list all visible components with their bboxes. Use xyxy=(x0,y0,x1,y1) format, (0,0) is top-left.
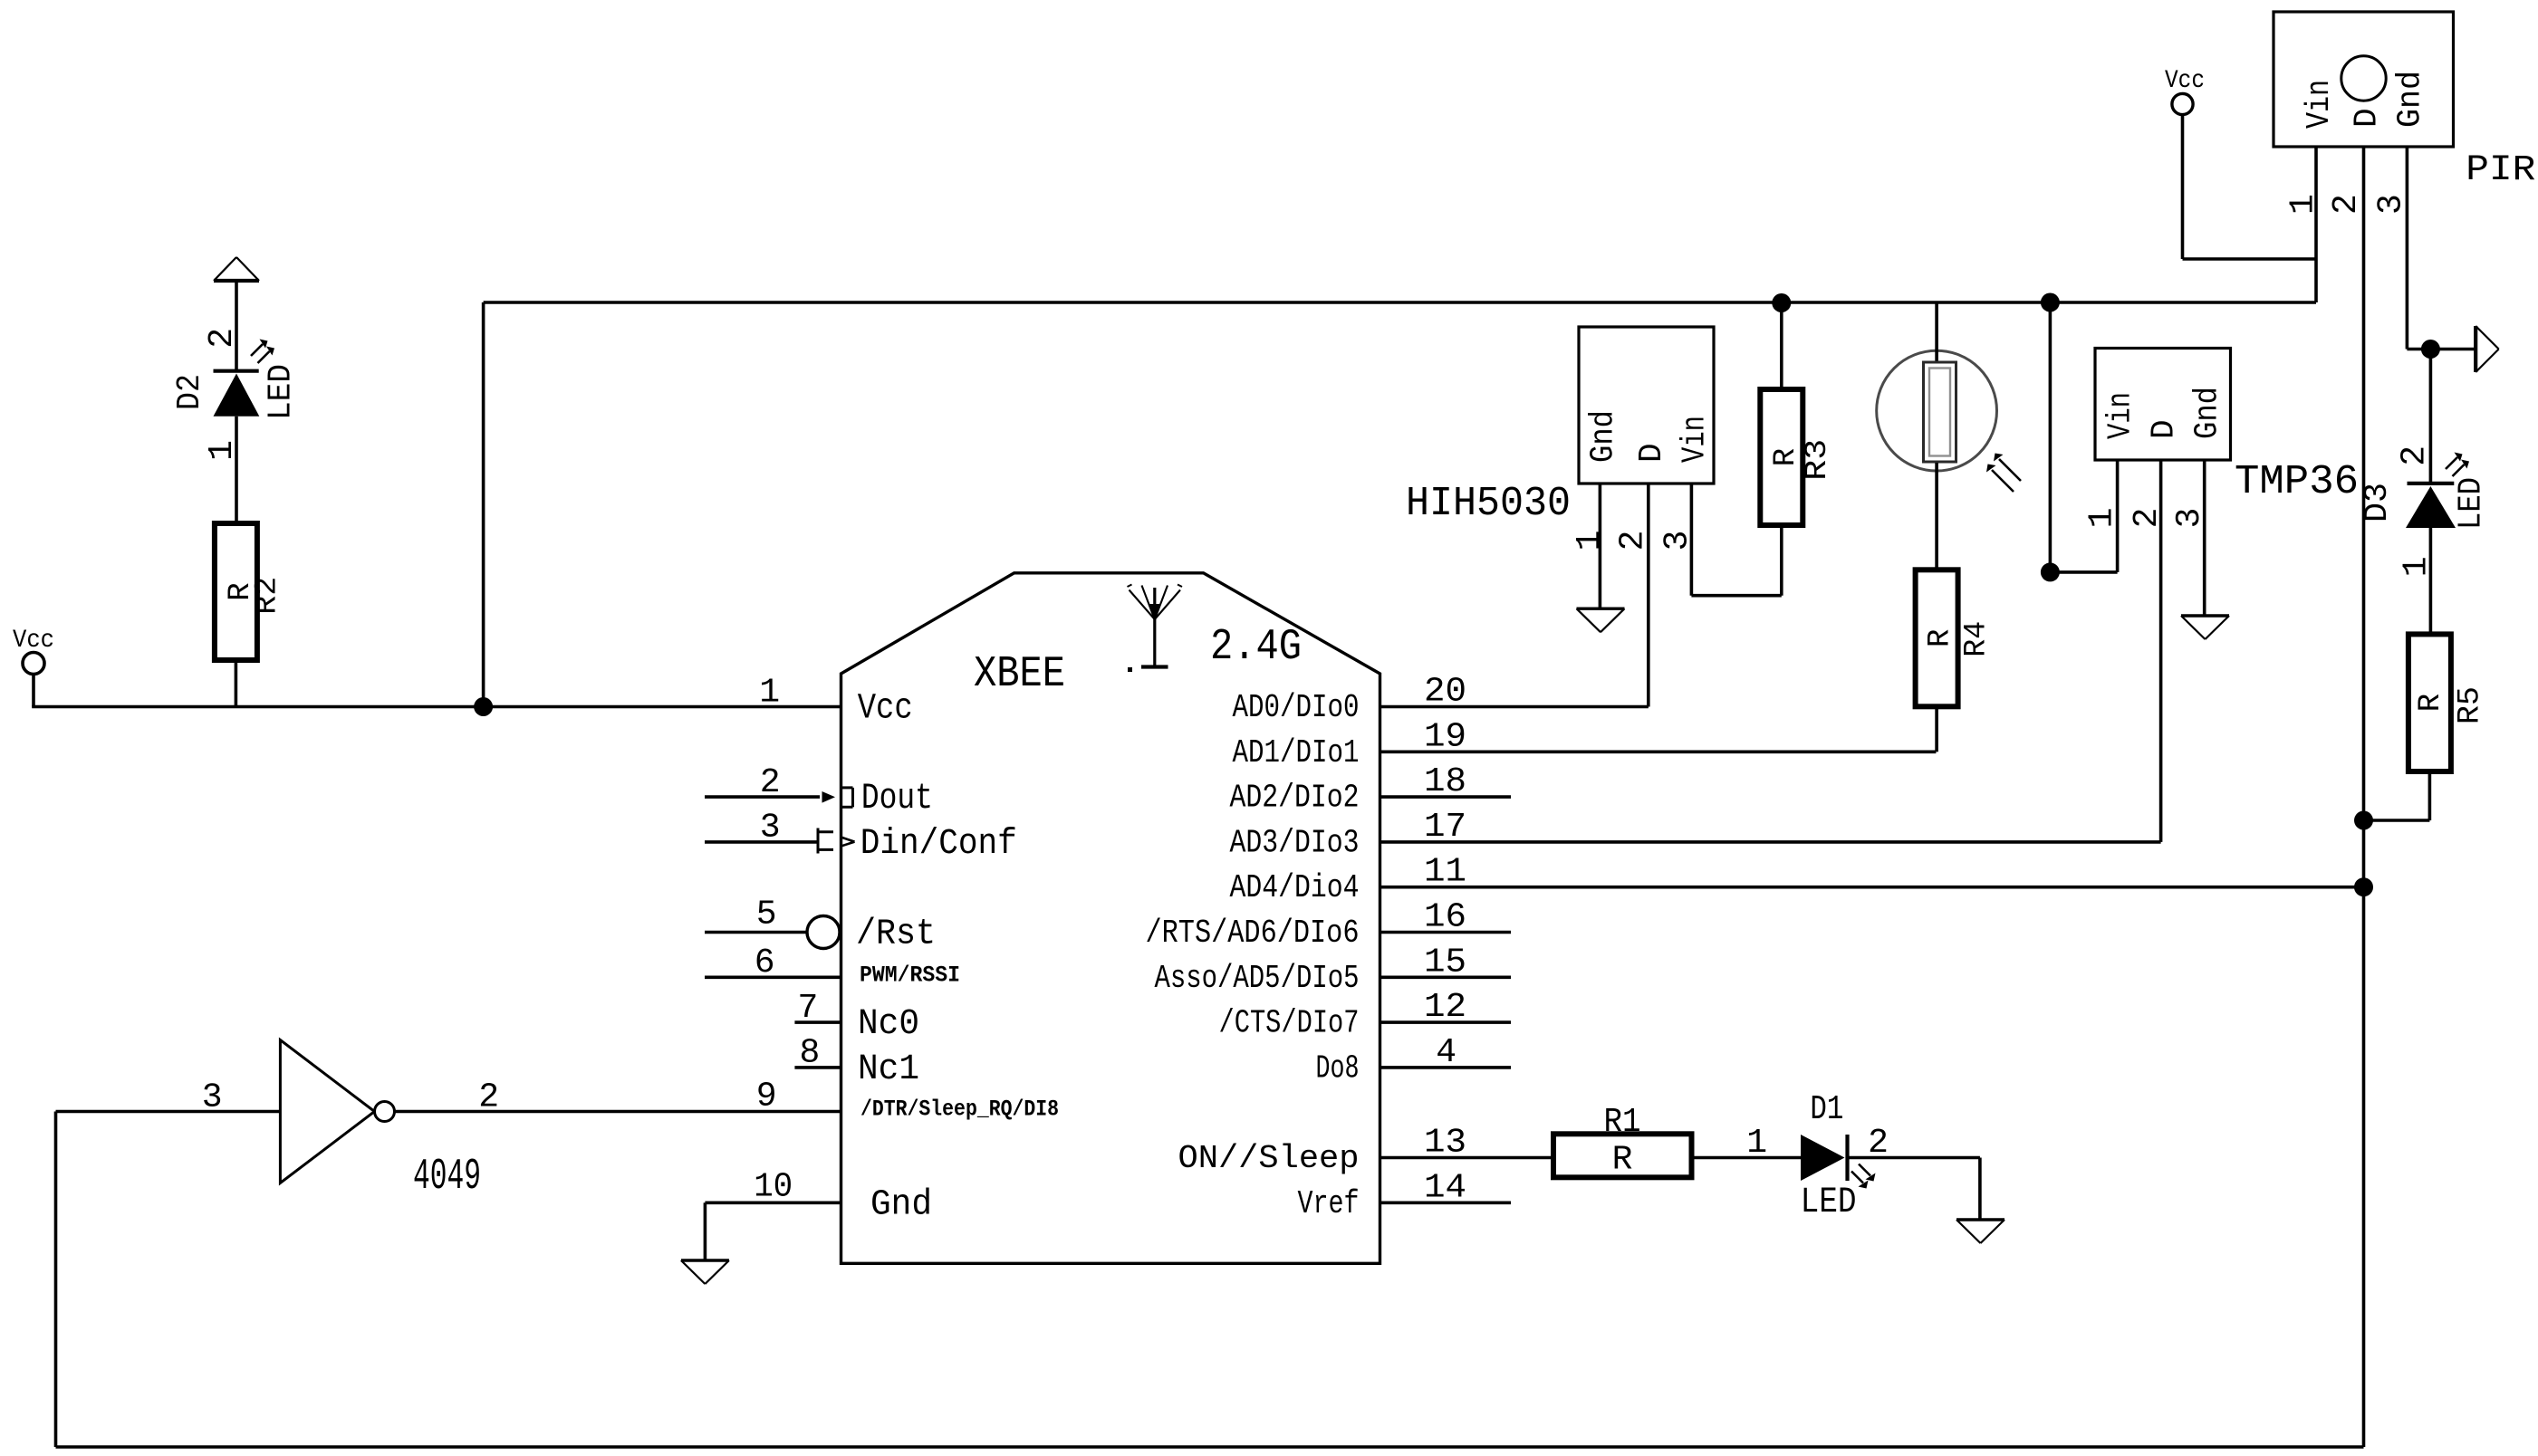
svg-text:R: R xyxy=(1924,629,1958,647)
svg-text:AD0/DIo0: AD0/DIo0 xyxy=(1233,689,1360,726)
svg-text:ON//Sleep: ON//Sleep xyxy=(1178,1140,1360,1177)
inverter U2 4049 triangle xyxy=(280,1040,374,1183)
resistor R1 xyxy=(1553,1134,1692,1177)
svg-text:LED: LED xyxy=(2453,477,2490,530)
svg-text:2: 2 xyxy=(203,328,242,349)
pin 13 ON//Sleep wire xyxy=(1380,1156,1554,1160)
svg-text:10: 10 xyxy=(754,1168,793,1207)
wire vertical riser from Vcc rail to top bus xyxy=(482,302,485,707)
svg-text:Vcc: Vcc xyxy=(2165,67,2205,95)
wire inverter input net xyxy=(56,1110,281,1114)
pin 8 Nc1 wire xyxy=(794,1066,841,1069)
pin 2 Dout wire xyxy=(705,795,820,799)
svg-text:Vin: Vin xyxy=(2102,392,2139,439)
wire R4 to pin 19 xyxy=(1935,706,1938,752)
svg-text:15: 15 xyxy=(1424,943,1466,982)
svg-text:2: 2 xyxy=(2327,194,2366,215)
svg-text:7: 7 xyxy=(797,989,818,1028)
svg-text:D: D xyxy=(2349,108,2386,128)
node junction bus / TMP36 riser xyxy=(2041,293,2060,312)
svg-text:/Rst: /Rst xyxy=(856,915,936,955)
ground symbol TMP36 xyxy=(2181,616,2229,639)
wire HIH pin1 to gnd xyxy=(1599,484,1602,608)
svg-text:13: 13 xyxy=(1424,1124,1466,1163)
svg-text:R5: R5 xyxy=(2454,686,2488,724)
node junction bus / R3 xyxy=(1772,293,1791,312)
PIR sensor box xyxy=(2274,12,2454,147)
pin 15 Asso/AD5/DIo5 wire xyxy=(1380,976,1512,980)
ground symbol at D1 xyxy=(1956,1220,2004,1243)
svg-text:R2: R2 xyxy=(251,577,285,615)
svg-text:XBEE: XBEE xyxy=(974,650,1065,699)
inverter bubble xyxy=(375,1102,395,1122)
pin 14 Vref wire xyxy=(1380,1202,1512,1205)
pin 19 AD1/DIo1 wire xyxy=(1380,750,1937,753)
resistor R4 xyxy=(1916,570,1958,706)
pin 9 wire from inverter xyxy=(395,1110,841,1114)
svg-text:Do8: Do8 xyxy=(1316,1049,1360,1087)
pin 11 AD4/Dio4 wire xyxy=(1380,886,2364,889)
svg-text:R3: R3 xyxy=(1801,439,1835,481)
svg-text:4049: 4049 xyxy=(413,1153,481,1202)
svg-text:Asso/AD5/DIo5: Asso/AD5/DIo5 xyxy=(1155,960,1360,997)
TMP36 sensor box xyxy=(2095,349,2231,461)
pin 16 /RTS/AD6/DIo6 wire xyxy=(1380,931,1512,934)
wire PIR pin3 to arrow xyxy=(2407,348,2476,351)
wire R1 to D1 xyxy=(1692,1156,1802,1160)
wire TMP pin2 (D) down to pin17 row xyxy=(2159,460,2163,842)
svg-text:D: D xyxy=(1633,443,1670,463)
pin 7 Nc0 wire xyxy=(794,1020,841,1024)
svg-text:Vin: Vin xyxy=(1676,416,1713,463)
node junction R5 / D line xyxy=(2354,811,2373,830)
svg-text:Vref: Vref xyxy=(1298,1185,1360,1222)
svg-text:R4: R4 xyxy=(1960,621,1995,657)
node junction Vcc rail / riser xyxy=(474,697,493,716)
pin 10 Gnd wire xyxy=(705,1202,841,1205)
pin 12 /CTS/DIo7 wire xyxy=(1380,1020,1512,1024)
pin 20 AD0/DIo0 wire xyxy=(1380,705,1649,709)
pin 6 PWM/RSSI wire xyxy=(705,976,841,980)
LED D1 xyxy=(1801,1135,1848,1181)
svg-text:Din/Conf: Din/Conf xyxy=(860,824,1017,865)
svg-text:5: 5 xyxy=(756,896,777,934)
HIH5030 sensor box xyxy=(1579,327,1714,484)
wire TMP pin3 to gnd xyxy=(2203,460,2206,616)
photoresistor LDR circle xyxy=(1877,350,1997,471)
ground symbol at XBEE pin 10 xyxy=(681,1260,729,1284)
svg-text:2: 2 xyxy=(2395,445,2434,466)
svg-text:Dout: Dout xyxy=(861,779,933,819)
pin 3 input bracket arrow xyxy=(818,829,855,854)
svg-text:AD2/DIo2: AD2/DIo2 xyxy=(1230,780,1360,817)
svg-text:D2: D2 xyxy=(171,374,208,410)
svg-text:Nc0: Nc0 xyxy=(858,1004,919,1045)
node junction pin11 / D line xyxy=(2354,877,2373,896)
svg-text:3: 3 xyxy=(760,809,781,848)
svg-text:19: 19 xyxy=(1424,717,1466,756)
wire bottom feedback rail xyxy=(56,1445,2364,1449)
svg-text:17: 17 xyxy=(1424,808,1466,847)
svg-text:1: 1 xyxy=(1746,1124,1767,1163)
svg-text:R: R xyxy=(1612,1141,1633,1180)
svg-text:2.4G: 2.4G xyxy=(1210,623,1302,672)
wire PIR pin1 down to bus xyxy=(2314,147,2318,302)
svg-text:Gnd: Gnd xyxy=(870,1184,932,1225)
svg-text:D1: D1 xyxy=(1810,1090,1843,1129)
svg-text:18: 18 xyxy=(1424,762,1466,801)
node junction TMP36 pin1 xyxy=(2041,562,2060,581)
pin 4 Do8 wire xyxy=(1380,1066,1512,1069)
signal arrow (right) xyxy=(2476,326,2499,372)
power terminal Vcc (left) xyxy=(23,653,44,675)
svg-text:Gnd: Gnd xyxy=(1584,410,1621,463)
wire HIH pin3 down and to R3 xyxy=(1690,484,1694,596)
power terminal Vcc (right) xyxy=(2172,93,2193,114)
wire PIR pin3 down xyxy=(2406,147,2409,350)
svg-text:PWM/RSSI: PWM/RSSI xyxy=(860,962,960,988)
svg-text:D: D xyxy=(2146,419,2183,439)
svg-text:AD4/Dio4: AD4/Dio4 xyxy=(1230,869,1360,906)
svg-text:/CTS/DIo7: /CTS/DIo7 xyxy=(1219,1005,1360,1042)
PIR lens circle xyxy=(2341,56,2386,101)
svg-text:2: 2 xyxy=(760,763,781,802)
pin 2 input arrow xyxy=(822,791,836,803)
wire top Vcc bus xyxy=(484,301,2316,304)
pin 17 AD3/DIo3 wire xyxy=(1380,840,2161,844)
svg-text:8: 8 xyxy=(799,1034,820,1073)
LED D3 xyxy=(2406,484,2456,528)
wire HIH pin2 (D) down to pin 20 row xyxy=(1647,484,1650,707)
wire R5 to PIR D line xyxy=(2428,771,2432,820)
ground symbol HIH xyxy=(1577,608,1625,632)
svg-text:PIR: PIR xyxy=(2466,150,2535,191)
svg-text:LED: LED xyxy=(263,364,300,420)
wire D3 to R5 xyxy=(2429,528,2433,634)
svg-text:9: 9 xyxy=(756,1078,777,1116)
node junction D3 branch xyxy=(2421,340,2440,359)
power arrow (up) at D2 top xyxy=(214,257,259,281)
pin 5 inversion bubble xyxy=(807,916,840,949)
wire D2 to R2 xyxy=(235,417,238,523)
pin 5 /Rst wire xyxy=(705,931,807,934)
D2 light arrows xyxy=(251,340,274,364)
wire PIR pin2 (D) long vertical xyxy=(2362,147,2366,1447)
svg-text:16: 16 xyxy=(1424,898,1466,937)
svg-text:LED: LED xyxy=(1801,1183,1857,1223)
wire arrow to D2 cathode xyxy=(235,281,238,371)
LDR light arrows xyxy=(1986,454,2021,493)
svg-text:Vcc: Vcc xyxy=(858,689,913,730)
svg-text:HIH5030: HIH5030 xyxy=(1406,481,1571,527)
resistor R3 xyxy=(1780,303,1783,390)
svg-text:11: 11 xyxy=(1424,853,1466,892)
resistor R2 xyxy=(215,523,257,660)
svg-text:Vin: Vin xyxy=(2301,80,2338,129)
svg-text:AD3/DIo3: AD3/DIo3 xyxy=(1230,824,1360,861)
wire Vcc terminal to pin 1 rail xyxy=(32,675,35,707)
svg-text:3: 3 xyxy=(2372,194,2411,215)
svg-text:20: 20 xyxy=(1424,673,1466,712)
D1 light arrows xyxy=(1851,1164,1876,1189)
wire bus to TMP36 pin1 riser xyxy=(2049,302,2053,572)
ic U1 XBEE module outline xyxy=(841,573,1380,1264)
wire LDR to R4 xyxy=(1935,463,1938,570)
svg-text:12: 12 xyxy=(1424,988,1466,1027)
svg-text:TMP36: TMP36 xyxy=(2235,459,2359,505)
svg-text:Nc1: Nc1 xyxy=(858,1049,919,1090)
pin 3 Din/Conf wire xyxy=(705,840,818,844)
svg-text:/RTS/AD6/DIo6: /RTS/AD6/DIo6 xyxy=(1146,915,1360,952)
wire pin10 to ground xyxy=(704,1202,707,1260)
svg-text:1: 1 xyxy=(1571,531,1610,551)
wire TMP pin1 up from junction xyxy=(2116,460,2120,572)
LDR body rect xyxy=(1935,302,1938,363)
resistor R5 xyxy=(2408,634,2451,771)
svg-text:R: R xyxy=(2414,694,2448,712)
svg-text:D3: D3 xyxy=(2359,483,2396,522)
svg-text:6: 6 xyxy=(755,944,775,982)
wire feedback left vertical xyxy=(54,1112,58,1448)
svg-text:4: 4 xyxy=(1436,1033,1456,1072)
svg-text:14: 14 xyxy=(1424,1168,1466,1207)
svg-text:R: R xyxy=(1769,448,1803,466)
svg-text:AD1/DIo1: AD1/DIo1 xyxy=(1233,734,1360,771)
wire to TMP36 pin 1 xyxy=(2050,570,2117,574)
svg-text:Gnd: Gnd xyxy=(2189,387,2226,439)
svg-text:Vcc: Vcc xyxy=(13,627,54,655)
wire D1 to ground xyxy=(1848,1156,1980,1160)
D3 light arrows xyxy=(2446,453,2469,477)
wire R2 to Vcc rail xyxy=(235,660,238,707)
svg-text:3: 3 xyxy=(202,1078,223,1117)
LED D2 xyxy=(214,371,260,417)
svg-text:R1: R1 xyxy=(1604,1103,1641,1142)
pin 18 AD2/DIo2 wire xyxy=(1380,795,1512,799)
svg-text:1: 1 xyxy=(759,674,780,713)
wire junction to D3 xyxy=(2429,350,2433,484)
svg-text:Gnd: Gnd xyxy=(2391,71,2428,128)
antenna symbol xyxy=(1128,585,1183,673)
wire Vcc to PIR pin1 xyxy=(2181,115,2185,259)
svg-text:2: 2 xyxy=(478,1078,499,1117)
svg-text:/DTR/Sleep_RQ/DI8: /DTR/Sleep_RQ/DI8 xyxy=(860,1097,1059,1123)
